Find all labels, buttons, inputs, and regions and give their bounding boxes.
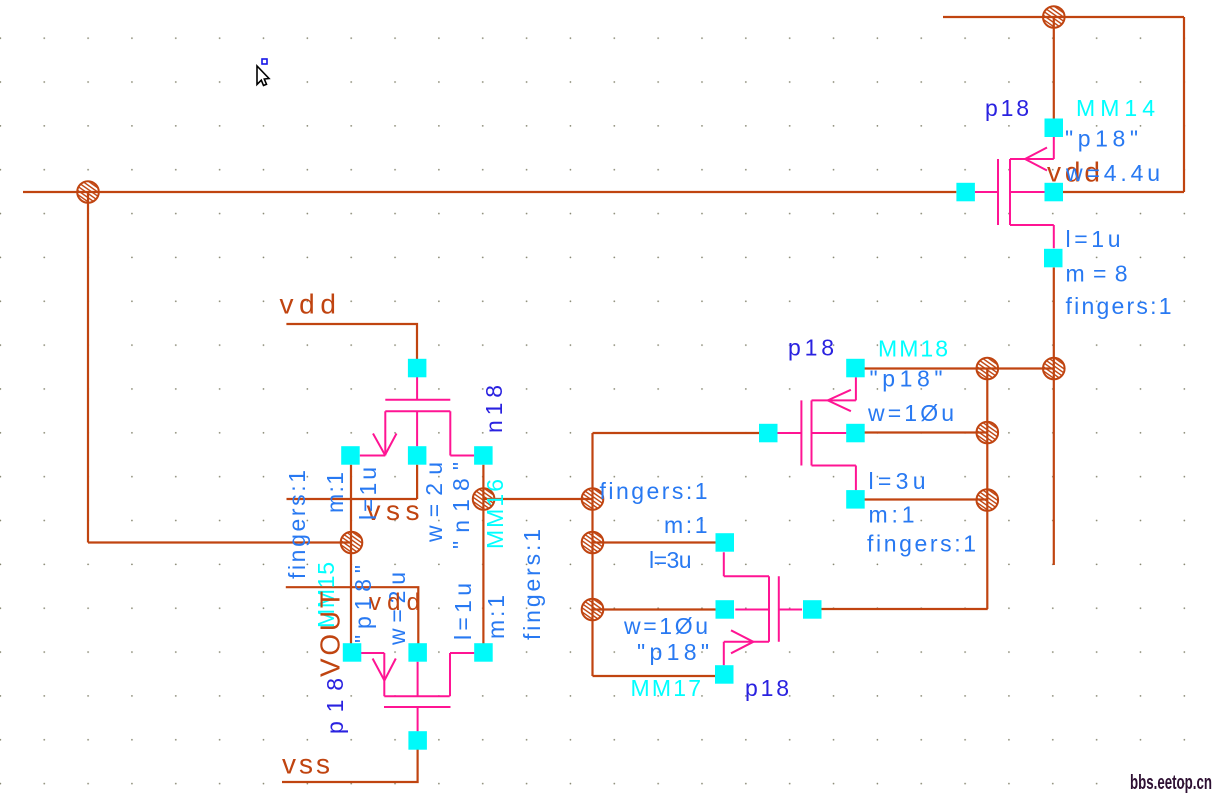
svg-text:l=3u: l=3u xyxy=(649,547,692,573)
svg-text:bbs.eetop.cn: bbs.eetop.cn xyxy=(1130,772,1212,794)
svg-text:MM17: MM17 xyxy=(631,675,702,701)
svg-text:m=8: m=8 xyxy=(1066,261,1128,287)
pin square MM18 source xyxy=(846,359,865,378)
wire MM16 source to MM15 source vertical xyxy=(350,465,352,644)
wire right column vertical upper x987 xyxy=(986,369,988,501)
svg-text:p18: p18 xyxy=(322,678,348,734)
mouse cursor arrow xyxy=(257,66,269,86)
svg-text:m:1: m:1 xyxy=(322,472,348,513)
pin square MM18 drain xyxy=(846,490,865,509)
node F gate-column junction mid (solder junction dot) xyxy=(582,532,604,554)
wire MM14 drain vertical down xyxy=(1053,268,1055,566)
node E gate-column junction upper (solder junction dot) xyxy=(582,488,604,510)
wire vdd-net horizontal into MM14 bulk xyxy=(1063,191,1184,193)
pin square MM18 gate xyxy=(759,424,778,443)
pin square MM14 bulk xyxy=(1045,183,1064,202)
pin square MM17 bulk xyxy=(716,600,735,619)
svg-text:l=1u: l=1u xyxy=(355,467,381,520)
wire net VO horizontal top-left rail xyxy=(23,191,956,193)
wire vdd-net right vertical drop xyxy=(1183,17,1185,192)
pin square MM15 bulk xyxy=(408,643,427,662)
svg-text:vss: vss xyxy=(282,749,330,780)
svg-text:MM16: MM16 xyxy=(482,479,508,549)
svg-text:vdd: vdd xyxy=(280,289,337,320)
transistor MM14 (pmos p18) symbol xyxy=(975,137,1054,248)
pin square MM16 source xyxy=(341,446,360,465)
node G gate-column junction lower (solder junction dot) xyxy=(582,599,604,621)
svg-text:p18: p18 xyxy=(745,675,789,701)
pin square MM14 source xyxy=(1045,119,1064,138)
pin square MM17 drain xyxy=(715,665,734,684)
svg-text:l=3u: l=3u xyxy=(869,468,926,494)
svg-text:w=1Øu: w=1Øu xyxy=(867,400,954,426)
svg-text:fingers:1: fingers:1 xyxy=(867,531,976,557)
wire junction column vertical x592 xyxy=(591,433,593,676)
wire vdd stub to MM15 bulk xyxy=(286,587,419,643)
svg-text:l=1u: l=1u xyxy=(1066,226,1121,252)
transistor MM18 (pmos p18) symbol xyxy=(777,377,856,490)
pin square MM17 gate xyxy=(803,600,822,619)
node K MM14-drain junction (solder junction dot) xyxy=(1043,358,1065,380)
svg-text:MM14: MM14 xyxy=(1076,95,1155,121)
wire n18 net horizontal to left junction column xyxy=(484,498,593,500)
svg-text:fingers:1: fingers:1 xyxy=(284,470,310,579)
svg-text:w=1Øu: w=1Øu xyxy=(623,613,708,639)
svg-text:m:1: m:1 xyxy=(483,595,509,639)
svg-text:vdd: vdd xyxy=(369,589,420,616)
cursor hotspot square xyxy=(262,59,267,64)
svg-text:n18: n18 xyxy=(481,385,507,433)
wire MM18 bulk row horizontal xyxy=(865,431,988,433)
wire MM16 drain to MM15 drain vertical xyxy=(482,465,484,644)
svg-text:p18: p18 xyxy=(788,335,834,361)
wire MM17 gate horizontal to right column xyxy=(821,608,987,610)
svg-text:l=1u: l=1u xyxy=(450,583,476,640)
wire gate net horizontal to MM18 gate xyxy=(593,432,760,434)
svg-text:fingers:1: fingers:1 xyxy=(1066,293,1172,319)
wire vdd-net top horizontal rail xyxy=(943,16,1184,18)
pin square MM16 drain xyxy=(474,446,493,465)
wire MM16 bulk vertical drop xyxy=(416,465,418,499)
svg-text:MM18: MM18 xyxy=(878,336,948,362)
node J right-column junction bottom (solder junction dot) xyxy=(977,489,999,511)
svg-text:p18: p18 xyxy=(985,95,1029,121)
transistor MM16 (nmos n18, rotated) symbol xyxy=(360,377,474,456)
wire horizontal to MM17 source xyxy=(593,541,716,543)
pin square MM15 drain xyxy=(474,643,493,662)
pin square MM16 bulk xyxy=(408,446,427,465)
pin square MM15 source xyxy=(343,643,362,662)
wire bottom horizontal to MM17 drain xyxy=(593,675,716,677)
wire vdd stub to MM16 gate xyxy=(286,324,417,359)
svg-text:fingers:1: fingers:1 xyxy=(600,478,708,504)
wire net VO horizontal to MM16 source column xyxy=(88,541,352,543)
pin square MM17 source xyxy=(716,533,735,552)
svg-text:m:1: m:1 xyxy=(869,502,915,528)
wire net VO left vertical xyxy=(87,192,89,543)
node A vdd-rail top junction (solder junction dot) xyxy=(1043,6,1065,28)
svg-text:m:1: m:1 xyxy=(664,512,708,538)
svg-text:fingers:1: fingers:1 xyxy=(519,529,545,640)
wire horizontal to MM17 bulk xyxy=(593,608,716,610)
node H right-column junction top (solder junction dot) xyxy=(977,358,999,380)
wire vss stub horizontal at MM16 bulk xyxy=(287,498,418,500)
wire right column vertical lower x987 xyxy=(986,500,988,609)
svg-text:VOUT: VOUT xyxy=(315,591,346,677)
node I right-column junction mid (solder junction dot) xyxy=(977,422,999,444)
pin square MM14 drain xyxy=(1044,249,1063,267)
node D n18 net junction (solder junction dot) xyxy=(473,488,495,510)
pin square MM14 gate xyxy=(956,183,975,202)
pin square MM16 gate xyxy=(408,359,427,378)
transistor MM17 (pmos p18, mirrored) symbol xyxy=(724,552,802,665)
pin square MM18 bulk xyxy=(846,424,865,443)
wire vdd-net vertical to MM14 source xyxy=(1053,17,1055,119)
wire MM18 drain row horizontal xyxy=(865,498,988,500)
wire vss stub at MM15 gate xyxy=(282,750,418,783)
pin square MM15 gate xyxy=(408,731,427,750)
transistor MM15 (pmos p18, rotated) symbol xyxy=(361,653,474,731)
wire MM18 source row horizontal xyxy=(865,367,1054,369)
node B net VO left junction (solder junction dot) xyxy=(77,181,99,203)
node C MM16/MM15 source junction (solder junction dot) xyxy=(341,532,363,554)
